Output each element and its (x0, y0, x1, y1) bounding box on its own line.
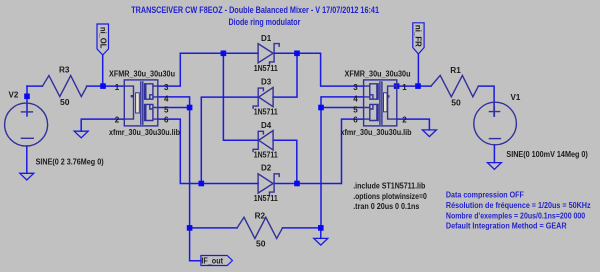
wire rail right D1 to D3 anode (273, 53, 297, 97)
wire V1 bottom to ground (493, 145, 495, 163)
XFMR1 phase dot (131, 95, 133, 97)
wire V2 bottom to ground (26, 146, 28, 173)
wire pin4L to tap (158, 97, 190, 108)
wire D4 anode down to D2 row (273, 140, 297, 183)
XFMR1 secondary top (145, 84, 158, 99)
svg-text:5: 5 (164, 106, 169, 115)
XFMR2 primary winding (388, 86, 397, 119)
wire pin4R to tap (321, 97, 364, 108)
XFMR2 core (380, 82, 382, 124)
svg-text:ni_FR: ni_FR (414, 25, 423, 47)
resistor R3 (43, 76, 88, 97)
wire LO_in flag drop (102, 55, 104, 86)
resistor R1 (431, 75, 478, 96)
XFMR1 primary winding (124, 86, 133, 119)
svg-text:xfmr_30u_30u30u.lib: xfmr_30u_30u30u.lib (341, 128, 412, 137)
svg-text:V1: V1 (511, 93, 521, 102)
svg-text:1: 1 (402, 83, 407, 92)
svg-text:D4: D4 (261, 121, 272, 130)
svg-text:1N5711: 1N5711 (254, 150, 278, 159)
ground under V2 (20, 173, 34, 180)
svg-text:TRANSCEIVER CW F8EOZ - Double: TRANSCEIVER CW F8EOZ - Double Balanced M… (131, 5, 379, 15)
wire pin2R to ground (397, 119, 430, 130)
svg-text:4: 4 (164, 95, 169, 104)
junction R2 left (187, 225, 193, 231)
voltage source V2 (5, 103, 48, 146)
diode D4 (259, 131, 273, 150)
svg-text:1N5711: 1N5711 (254, 194, 278, 203)
wire R2 row left (190, 227, 238, 229)
transformer XFMR1 box (124, 80, 158, 126)
svg-text:.options plotwinsize=0: .options plotwinsize=0 (353, 192, 427, 201)
flag LO_in (97, 24, 109, 55)
wire V2 pin vertical (26, 86, 28, 116)
flag RF_in (413, 23, 424, 54)
junction XFMR2 pin1 (394, 83, 400, 89)
wire rail1 D1row down to D4 (223, 53, 257, 140)
XFMR2 winding slot (384, 93, 388, 112)
svg-text:6: 6 (164, 115, 169, 124)
wire R1 right to V1 (478, 86, 494, 116)
svg-text:SINE(0 100mV 14Meg 0): SINE(0 100mV 14Meg 0) (506, 150, 588, 159)
voltage source V1 (474, 102, 517, 145)
wire XFMR1 pin2 to ground (81, 119, 124, 131)
svg-text:SINE(0 2 3.76Meg 0): SINE(0 2 3.76Meg 0) (36, 158, 104, 167)
svg-text:Diode ring modulator: Diode ring modulator (229, 17, 301, 27)
svg-text:XFMR_30u_30u30u: XFMR_30u_30u30u (345, 70, 411, 79)
XFMR2 secondary top (364, 84, 379, 99)
wire pin5R to tap (321, 107, 364, 109)
junction XFMR1 pin1 / LO node (100, 83, 106, 89)
svg-text:xfmr_30u_30u30u.lib: xfmr_30u_30u30u.lib (109, 128, 180, 137)
svg-text:50: 50 (451, 98, 461, 107)
svg-text:D3: D3 (261, 78, 272, 87)
svg-text:6: 6 (353, 115, 358, 124)
wire tap rail left down to R2 (189, 108, 191, 228)
wire D1 cathode to pin3R (274, 53, 364, 86)
svg-text:1N5711: 1N5711 (254, 107, 278, 116)
wire tap rail right down to R2 (320, 108, 322, 228)
junction D2 row right (294, 181, 300, 187)
svg-text:Default Integration Method = G: Default Integration Method = GEAR (446, 222, 567, 231)
svg-text:R1: R1 (450, 66, 461, 75)
wire pin3L up to D1 row (158, 53, 258, 86)
junction D1 row right (294, 51, 300, 57)
svg-text:1: 1 (115, 83, 120, 92)
resistor R2 (237, 217, 282, 238)
junction D2 row left (199, 181, 205, 187)
wire D2 cathode to pin6R (274, 119, 364, 183)
wire rail2 D3 row down to D2 row (201, 97, 257, 183)
svg-text:R2: R2 (255, 211, 266, 220)
svg-text:3: 3 (353, 83, 358, 92)
wire R2 row right (283, 227, 321, 229)
svg-text:.include ST1N5711.lib: .include ST1N5711.lib (353, 182, 425, 191)
wire IF_out drop (190, 228, 201, 261)
svg-text:50: 50 (256, 239, 266, 248)
transformer XFMR2 box (364, 80, 397, 126)
wire RF_in flag drop (417, 54, 419, 86)
svg-text:Résolution de fréquence = 1/20: Résolution de fréquence = 1/20us = 50KHz (446, 201, 591, 210)
svg-text:D1: D1 (261, 34, 272, 43)
wire pin5L to tap (158, 107, 190, 109)
XFMR1 secondary bottom (145, 104, 158, 120)
svg-text:2: 2 (402, 115, 407, 124)
svg-text:V2: V2 (9, 91, 19, 100)
wire ground stub under R2 right (320, 228, 322, 239)
svg-text:1N5711: 1N5711 (254, 64, 278, 73)
junction RF node (415, 83, 421, 89)
svg-text:Data compression OFF: Data compression OFF (446, 191, 524, 200)
ground under V1 (487, 163, 501, 170)
diode D1 (258, 44, 273, 63)
svg-text:3: 3 (164, 83, 169, 92)
svg-text:.tran 0 20us 0 0.1ns: .tran 0 20us 0 0.1ns (353, 202, 420, 211)
svg-text:Nombre d'exemples = 20us/0.1ns: Nombre d'exemples = 20us/0.1ns=200 000 (446, 211, 586, 220)
svg-text:50: 50 (60, 98, 70, 107)
svg-text:ni_OL: ni_OL (99, 27, 108, 48)
svg-text:2: 2 (115, 115, 120, 124)
flag IF_out (201, 256, 233, 266)
XFMR2 secondary bottom (364, 104, 379, 120)
svg-text:4: 4 (353, 95, 358, 104)
junction pins 4-5 right tap (318, 105, 324, 111)
diode D3 (259, 87, 273, 106)
svg-text:IF_out: IF_out (201, 257, 223, 266)
wire pin1R to R1 (397, 85, 431, 87)
ground under R2 right (314, 238, 328, 245)
diode D2 (258, 174, 273, 193)
ground under XFMR1 pin2 (74, 131, 88, 138)
junction D1 row left (221, 51, 227, 57)
XFMR1 core (141, 82, 143, 124)
junction R2 right (318, 225, 324, 231)
XFMR1 winding slot (136, 93, 140, 113)
XFMR2 phase dot (387, 95, 389, 97)
svg-text:D2: D2 (261, 164, 272, 173)
wire pin6L down to D2 row (158, 119, 258, 183)
wire R3 right to XFMR1 pin1 (87, 85, 125, 87)
ground under XFMR2 pin2 (422, 130, 436, 137)
svg-text:R3: R3 (59, 66, 70, 75)
junction pins 4-5 left tap (187, 105, 193, 111)
svg-text:XFMR_30u_30u30u: XFMR_30u_30u30u (109, 70, 175, 79)
junction V2 top pin (24, 94, 30, 100)
svg-text:5: 5 (353, 106, 358, 115)
wire V2 top to R3 (27, 85, 43, 87)
